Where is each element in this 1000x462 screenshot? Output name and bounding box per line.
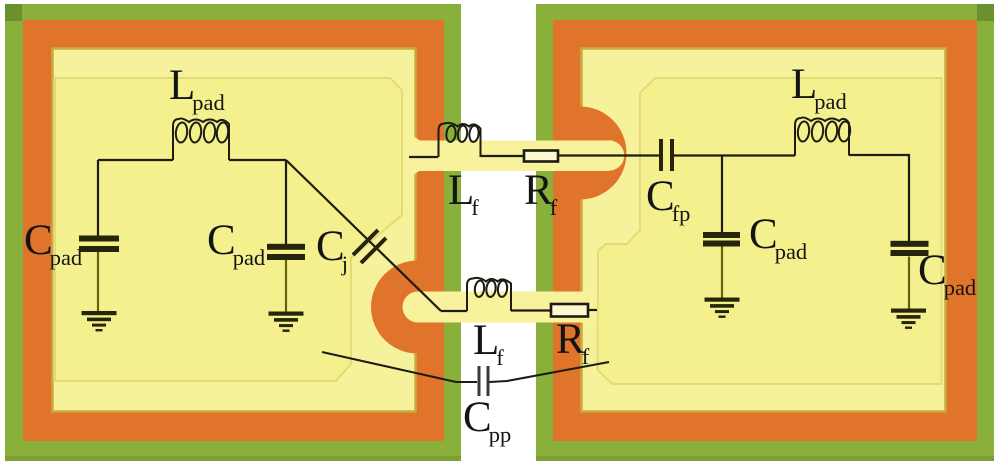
right pad light edge line [940,78,943,384]
wire: left pad baseline [98,159,286,161]
capacitor C_fp plates [659,139,674,171]
inductor L_pad (left) [173,118,229,160]
wire: C_pad3 vertical [721,156,723,234]
wire: C_pp right [490,362,610,382]
left pad dark corner [5,4,22,21]
capacitor C_j plates [353,230,386,263]
wire: R_f2 to pad [588,309,597,311]
capacitor C_pad 4 [891,241,929,256]
wire: R_f1 to C_fp [558,154,659,156]
right pad green frame [536,4,994,461]
wire: C_pad2 vertical [285,160,287,244]
svg-text:Rf: Rf [556,316,590,369]
svg-text:Rf: Rf [524,167,558,220]
left pad bottom dark edge [5,456,461,461]
row-2 strip rounded tip [403,292,434,323]
wire: row1 start [409,156,438,158]
left pad green frame [5,4,461,461]
wire: C_pad1 vertical [97,160,99,236]
ground 3 [705,298,740,318]
capacitor C_pad 3 [703,232,740,247]
row-2 feed strip (into right pad) [418,292,597,323]
left pad orange frame [23,20,444,441]
wire: C_pp left [322,352,477,382]
wire: to R_f1 [481,155,525,157]
capacitor C_pp plates [478,366,490,396]
right pad dark corner [977,4,994,21]
left pad light edge line [54,78,57,381]
wire: C_pad1 stem [97,252,99,311]
right pad inner metal region [598,78,942,384]
ground 4 [891,309,926,329]
capacitor C_pad 2 [267,244,305,260]
right pad yellow interior [581,48,946,412]
left pad interior edge line [53,49,416,412]
wire: diagonal to C_j [286,160,441,311]
wire: to R_f2 [511,309,551,311]
wire: C_j to row-2 strip [441,310,467,312]
ground 2 [269,312,304,332]
left pad inner metal region [55,78,402,381]
wire: C_pad4 stem [908,257,910,309]
right pad bump (orange half-ring on left edge) [580,107,627,200]
left pad bump (orange half-ring on right edge) [371,261,418,354]
ground 1 [82,311,117,331]
row-1 strip rounded tip [594,140,624,170]
inductor L_f (row 2) [467,278,511,311]
capacitor C_pad 1 [79,236,119,253]
wire: C_fp to L_pad2 [674,154,795,156]
row-1 feed strip (left pad to right pad) [410,134,577,177]
wire: L_pad2 to corner [849,155,909,241]
right pad bottom dark edge [536,456,994,461]
resistor R_f (row 2) [551,304,588,317]
wire: C_pad3 stem [721,247,723,298]
resistor R_f (row 1) [524,151,558,162]
svg-text:Cj: Cj [316,223,348,276]
inductor L_f (row 1) [439,123,481,157]
wire: C_pad2 stem [285,260,287,312]
inductor L_pad (right) [795,117,851,155]
right pad orange frame [553,20,977,441]
right pad interior edge line [582,49,946,412]
left pad yellow interior [52,48,416,412]
